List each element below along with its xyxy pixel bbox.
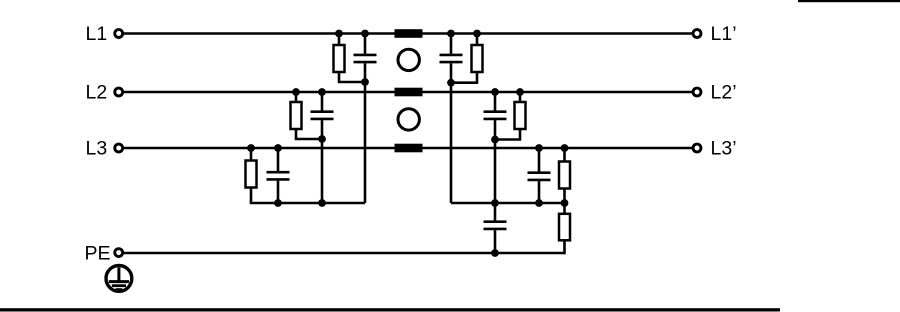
- capacitor C5 (L2 right): [484, 92, 507, 140]
- ground (protective earth symbol): [106, 266, 132, 292]
- resistor R7 (bleeder star to PE): [559, 203, 570, 254]
- terminal L3: [115, 144, 123, 152]
- terminal L1: [115, 30, 123, 38]
- junction L2/C2: [318, 88, 326, 96]
- resistor R6 (L3 right): [559, 148, 570, 203]
- svg-text:L3’: L3’: [711, 138, 737, 160]
- wire L1 line: [124, 32, 692, 35]
- junction L1/R4: [473, 30, 481, 38]
- terminal L1': [693, 30, 701, 38]
- junction L3/C3: [274, 144, 282, 152]
- junction L1/C4: [447, 30, 455, 38]
- svg-text:L2: L2: [86, 82, 108, 104]
- wire L2-left chain to star bus: [321, 139, 324, 203]
- junction L3/R6: [561, 144, 569, 152]
- capacitor C2 (L2 left): [311, 92, 334, 139]
- capacitor C1 (L1 left): [354, 34, 377, 83]
- wire L3 line: [124, 147, 692, 150]
- choke core circle upper: [398, 49, 419, 70]
- svg-text:L1’: L1’: [711, 23, 737, 45]
- capacitor C4 (L1 right): [440, 34, 463, 83]
- junction L1-right RC join: [447, 79, 455, 87]
- choke winding L1: [395, 29, 423, 38]
- junction L3/R3: [247, 144, 255, 152]
- capacitor C6 (L3 right): [528, 148, 551, 203]
- wire L1-left chain to star bus: [364, 82, 367, 203]
- resistor R1 (L1 left): [334, 34, 366, 83]
- junction R6-R7/right bus: [561, 199, 569, 207]
- junction L2-left RC join: [318, 135, 326, 143]
- terminal L2: [115, 88, 123, 96]
- junction L2-right RC join: [491, 136, 499, 144]
- svg-text:PE: PE: [85, 242, 111, 264]
- svg-text:L3: L3: [86, 138, 108, 160]
- junction C6/right bus: [535, 199, 543, 207]
- terminal PE: [115, 249, 123, 257]
- choke winding L2: [395, 88, 423, 97]
- capacitor C3 (L3 left): [267, 148, 290, 203]
- resistor R5 (L2 right): [495, 92, 526, 140]
- terminal L3': [693, 144, 701, 152]
- wire L2 line: [124, 91, 692, 94]
- junction C3/left bus: [274, 199, 282, 207]
- svg-text:L2’: L2’: [711, 82, 737, 104]
- wire right star bus: [451, 202, 566, 205]
- resistor R2 (L2 left): [291, 92, 323, 139]
- wire PE line: [124, 252, 565, 255]
- resistor R3 (L3 left): [246, 148, 257, 203]
- svg-text:L1: L1: [86, 23, 108, 45]
- wire L1-right chain to star bus: [450, 83, 453, 203]
- terminal L2': [693, 88, 701, 96]
- junction C7/PE line: [491, 249, 499, 257]
- wire left star bus: [250, 202, 365, 205]
- choke core circle lower: [398, 109, 419, 130]
- junction L2-chain/left bus: [318, 199, 326, 207]
- choke winding L3: [395, 144, 423, 153]
- wire L2-right chain to star bus: [494, 140, 497, 204]
- junction L2/R2: [292, 88, 300, 96]
- junction L1-left RC join: [361, 78, 369, 86]
- junction L3/C6: [535, 144, 543, 152]
- resistor R4 (L1 right): [451, 34, 483, 83]
- page edge bar top right: [798, 0, 900, 2]
- junction L1/C1: [361, 30, 369, 38]
- capacitor C7 (Y-cap star to PE): [484, 203, 507, 253]
- junction L2/R5: [516, 88, 524, 96]
- junction L1/R1: [335, 30, 343, 38]
- page edge bar bottom: [0, 308, 780, 311]
- junction L2/C5: [491, 88, 499, 96]
- junction C5-chain/right bus: [491, 199, 499, 207]
